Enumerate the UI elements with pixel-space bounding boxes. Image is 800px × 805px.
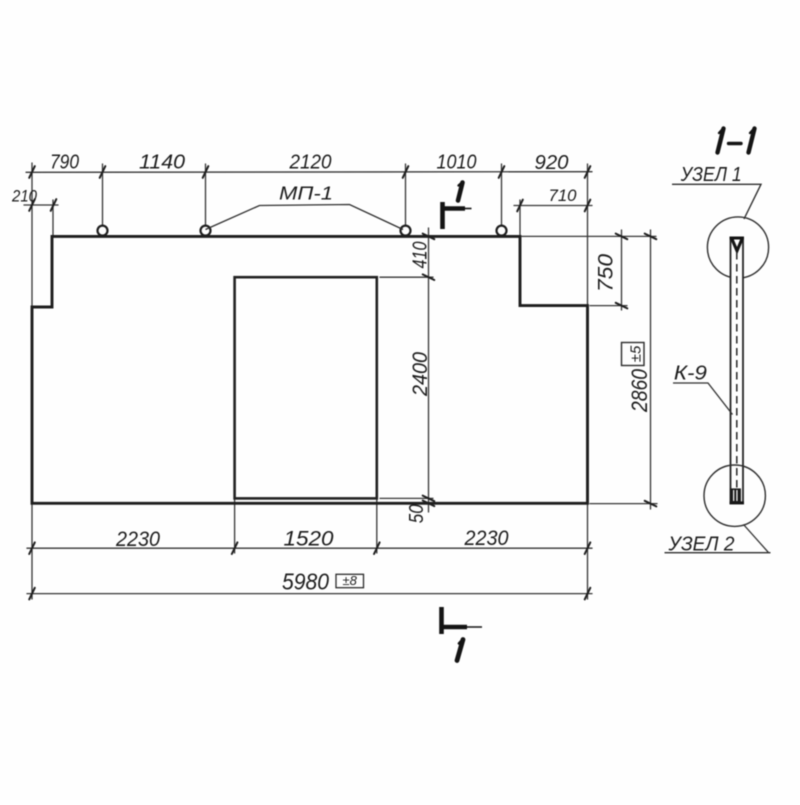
section digit 1 (top) <box>458 183 463 201</box>
extension line x=405.5 <box>405 164 407 225</box>
extension line x=587.5 top <box>587 164 589 305</box>
extension opening top corner <box>380 276 433 278</box>
thin extension/dimension line group <box>24 163 657 599</box>
lifting loop 3 <box>401 226 411 236</box>
extension line right step y=305.6 <box>590 305 627 307</box>
bottom anchor block (hatched) <box>732 490 739 502</box>
svg-text:МП-1: МП-1 <box>279 183 333 204</box>
detail circle УЗЕЛ 1 <box>707 217 768 278</box>
УЗЕЛ 1 underline and leader <box>672 184 761 219</box>
bottom dimension line (2230/1520/2230) <box>27 547 592 549</box>
extension line x=205.5 <box>205 164 207 225</box>
svg-text:50: 50 <box>406 504 428 523</box>
ticks 210 dim <box>29 199 35 211</box>
МП-1 leader lines <box>206 205 404 230</box>
К-9 underline and leader <box>673 383 733 415</box>
svg-text:410: 410 <box>410 242 432 269</box>
dimension tick marks <box>29 166 656 599</box>
svg-text:2120: 2120 <box>289 152 332 174</box>
extension line x=32 top <box>31 163 33 307</box>
ticks 410/2400/50 dim <box>423 234 435 240</box>
extension line panel top edge to right <box>522 235 656 237</box>
lifting loop 1 <box>98 226 108 236</box>
detail circle УЗЕЛ 2 <box>704 465 765 526</box>
svg-text:2230: 2230 <box>115 528 160 551</box>
ticks bottom dim line <box>29 542 35 554</box>
section bar thick bottom edge <box>730 501 745 504</box>
svg-text:1140: 1140 <box>139 152 185 174</box>
svg-text:УЗЕЛ 1: УЗЕЛ 1 <box>680 164 742 186</box>
svg-text:2400: 2400 <box>409 352 432 397</box>
lifting loop 2 <box>201 226 211 236</box>
svg-text:±5: ±5 <box>628 345 645 362</box>
tolerance box ±5 (rotated) <box>622 343 645 366</box>
dashed centerline К-9 rod <box>736 252 738 489</box>
extension line x=520 <box>519 200 521 236</box>
УЗЕЛ 2 underline and leader <box>665 525 771 553</box>
svg-text:2860: 2860 <box>627 368 652 413</box>
bottom dimension line 5980 <box>27 593 592 595</box>
tolerance box ±8 <box>336 574 364 587</box>
ticks 750 dim <box>616 234 628 240</box>
top dimension line (790/1140/2120/1010/920) <box>26 171 592 174</box>
ticks 2860 dim <box>645 234 657 240</box>
extension line x=52 <box>52 200 54 236</box>
extension line panel bottom to right <box>590 503 657 505</box>
section 1-1 title <box>718 128 755 153</box>
section bar thick top edge <box>730 237 745 240</box>
svg-text:790: 790 <box>50 152 79 174</box>
V notch at top of section <box>732 239 742 251</box>
svg-text:710: 710 <box>549 186 578 205</box>
section mark 1 (bottom) <box>440 607 467 634</box>
svg-text:1010: 1010 <box>437 152 477 174</box>
dimension line 410/2400/50 vertical <box>428 228 430 512</box>
dimension line 2860 vertical <box>650 230 652 509</box>
extension line x=102.5 <box>102 164 104 225</box>
second dimension line 210 <box>24 204 58 206</box>
svg-text:5980: 5980 <box>282 569 329 595</box>
svg-text:1520: 1520 <box>284 528 334 551</box>
lifting loop 4 <box>497 226 507 236</box>
panel outline (elevation) <box>32 236 588 503</box>
dimension line 750 vertical <box>621 230 623 310</box>
svg-text:750: 750 <box>595 254 618 292</box>
extension x=587.5 bottom <box>587 505 589 599</box>
extension line x=501.5 <box>501 164 503 225</box>
svg-text:К-9: К-9 <box>674 363 707 385</box>
extension opening bottom corner <box>380 497 433 499</box>
panel section bar <box>731 238 744 503</box>
extension x=234.6 bottom <box>234 499 236 553</box>
extension x=32 bottom <box>31 505 33 599</box>
ticks top dim line <box>29 166 35 178</box>
dimension line 710 <box>514 205 592 207</box>
svg-text:210: 210 <box>11 187 37 206</box>
ticks 710 dim <box>517 200 523 212</box>
ticks 5980 dim <box>29 588 35 600</box>
svg-text:920: 920 <box>535 152 569 174</box>
section digit 1 (bottom) <box>457 640 463 661</box>
svg-text:±8: ±8 <box>343 573 358 588</box>
section mark 1 (top) <box>441 202 465 229</box>
extension x=376.8 bottom <box>376 499 378 553</box>
door opening rectangle <box>235 277 377 498</box>
svg-text:2230: 2230 <box>464 527 509 550</box>
